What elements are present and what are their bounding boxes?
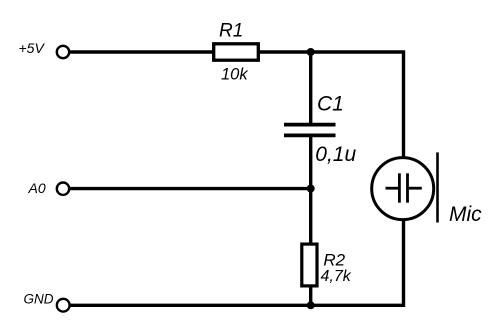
wire R2 to GND: [309, 286, 312, 305]
svg-text:A0: A0: [28, 180, 46, 196]
svg-text:10k: 10k: [221, 66, 248, 84]
microphone Mic body: [372, 158, 434, 220]
resistor R2: [302, 244, 317, 286]
wire C1 to R2: [309, 137, 312, 244]
mic capacitor symbol: [386, 173, 422, 202]
wire A0: [70, 187, 311, 190]
wire R1 to top-right corner: [259, 52, 404, 157]
wire GND: [70, 220, 404, 305]
node GND junction: [307, 301, 315, 309]
wire junction to C1: [309, 52, 312, 123]
node top junction: [307, 48, 315, 56]
svg-text:GND: GND: [24, 292, 54, 307]
svg-text:0,1u: 0,1u: [315, 143, 356, 166]
svg-text:R1: R1: [219, 21, 243, 42]
node A0 junction: [307, 185, 315, 193]
capacitor C1: [284, 125, 336, 136]
terminal A0: [57, 183, 69, 195]
svg-text:C1: C1: [317, 92, 344, 115]
svg-text:R2: R2: [323, 251, 345, 270]
svg-text:4,7k: 4,7k: [321, 268, 352, 285]
terminal GND: [57, 299, 70, 312]
resistor R1: [214, 44, 259, 60]
svg-text:+5V: +5V: [19, 40, 46, 56]
svg-text:Mic: Mic: [449, 203, 482, 226]
mic membrane line: [436, 152, 439, 222]
wire +5V to R1: [70, 50, 214, 53]
terminal +5V: [57, 46, 69, 58]
